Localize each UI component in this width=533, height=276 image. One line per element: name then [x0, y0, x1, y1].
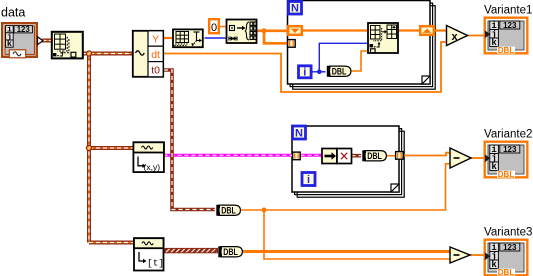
svg-text:t0: t0 [151, 64, 160, 76]
svg-text:Y: Y [152, 34, 159, 46]
svg-text:Variante1: Variante1 [484, 4, 532, 16]
svg-text:i: i [303, 67, 306, 79]
svg-text:N: N [295, 128, 303, 140]
svg-text:dt: dt [151, 49, 160, 61]
svg-text:0: 0 [211, 22, 217, 34]
svg-text:Variante2: Variante2 [484, 128, 532, 140]
svg-text:(x,y): (x,y) [144, 162, 161, 172]
svg-text:[t]: [t] [147, 258, 164, 269]
svg-text:x: x [452, 31, 459, 43]
svg-text:Variante3: Variante3 [484, 226, 532, 238]
svg-text:N: N [291, 3, 299, 15]
svg-text:123: 123 [17, 25, 31, 34]
svg-text:data: data [1, 6, 25, 20]
svg-text:i: i [307, 174, 310, 186]
svg-text:k: k [7, 39, 12, 49]
